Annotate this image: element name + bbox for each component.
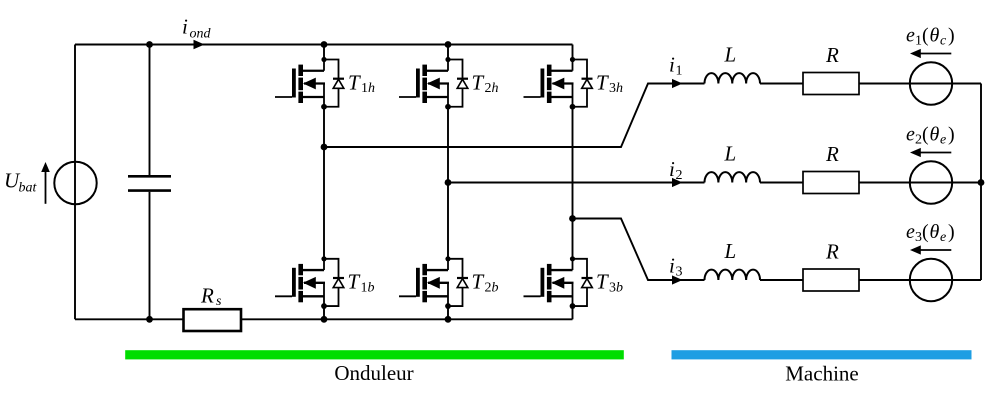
current arrow i2 (672, 178, 683, 187)
svg-text:2b: 2b (485, 280, 499, 295)
resistor R phase 1 (803, 73, 859, 95)
wire: leg 1 bottom lead (323, 306, 325, 319)
wire: phase 2 tap rail (448, 182, 705, 184)
wire: leg 1 top lead (323, 45, 325, 60)
wire: phase 2 R to right bus (859, 182, 981, 184)
svg-text:e: e (906, 221, 915, 243)
svg-text:bat: bat (19, 181, 38, 196)
junction dot bottom rail / leg2 (445, 316, 452, 323)
voltage source U_bat circle (54, 162, 96, 204)
svg-text:1b: 1b (361, 280, 375, 295)
svg-text:): ) (948, 124, 955, 146)
resistor R phase 3 (803, 269, 859, 291)
svg-text:2h: 2h (485, 81, 499, 96)
resistor Rs (184, 309, 242, 331)
junction dot top rail / capacitor (146, 41, 153, 48)
current arrow i3 (672, 275, 683, 284)
svg-text:): ) (948, 25, 955, 47)
wire: leg 3 mid vertical (572, 107, 574, 259)
svg-text:i: i (669, 254, 675, 278)
svg-text:3: 3 (676, 265, 683, 280)
svg-text:3h: 3h (609, 81, 623, 96)
svg-text:e: e (906, 124, 915, 146)
svg-text:s: s (216, 294, 222, 309)
capacitor C plates (128, 176, 171, 190)
source e1 circle (910, 62, 952, 104)
source e2 circle (910, 161, 952, 203)
svg-text:3: 3 (915, 230, 922, 245)
svg-text:1: 1 (676, 64, 683, 79)
svg-text:T: T (348, 70, 361, 94)
svg-text:3b: 3b (609, 280, 623, 295)
svg-text:Machine: Machine (785, 362, 858, 386)
wire: right vertical bus (980, 84, 982, 281)
wire: phase 3 between coil and R (760, 279, 803, 281)
arrow above e3 (910, 245, 951, 254)
wire: phase 1 source to right bus (910, 83, 981, 85)
wire: phase 1 between coil and R (760, 83, 803, 85)
svg-text:L: L (724, 142, 737, 166)
svg-text:2: 2 (676, 168, 683, 183)
wire: top rail (75, 44, 573, 46)
transistor T1h (NMOS + body diode) (275, 57, 344, 110)
wire: phase 3 R to right bus (859, 279, 981, 281)
junction dot phase 1 tap (321, 144, 328, 151)
svg-text:θ: θ (930, 221, 940, 243)
source e3 circle (910, 259, 952, 301)
wire: capacitor branch lower (149, 192, 151, 319)
wire: leg 2 mid vertical (447, 107, 449, 259)
wire: bottom rail left of Rs (75, 318, 183, 320)
svg-text:1h: 1h (361, 81, 375, 96)
blue underline bar (Machine) (672, 350, 972, 359)
inductor L phase 2 (705, 172, 761, 182)
svg-text:e: e (940, 133, 946, 148)
svg-text:R: R (825, 240, 839, 264)
svg-text:e: e (906, 25, 915, 47)
svg-text:L: L (724, 239, 737, 263)
svg-text:(: ( (922, 221, 929, 243)
svg-text:ond: ond (190, 27, 212, 42)
svg-text:θ: θ (930, 25, 940, 47)
transistor T2h (NMOS + body diode) (399, 57, 468, 110)
junction dot top rail / leg2 (445, 41, 452, 48)
svg-text:L: L (724, 43, 737, 67)
junction dot right bus / phase 2 (978, 179, 985, 186)
svg-text:T: T (596, 270, 609, 294)
wire: left vertical (battery branch) (74, 45, 76, 320)
svg-text:R: R (200, 284, 214, 308)
svg-text:e: e (940, 230, 946, 245)
wire: leg 1 mid vertical (323, 107, 325, 259)
svg-text:T: T (348, 270, 361, 294)
arrow above e1 (910, 49, 951, 58)
svg-text:R: R (825, 142, 839, 166)
transistor T3h (NMOS + body diode) (524, 57, 593, 110)
transistor T1b (NMOS + body diode) (275, 256, 344, 309)
transistor T2b (NMOS + body diode) (399, 256, 468, 309)
svg-text:c: c (940, 34, 947, 49)
junction dot phase 2 tap (445, 179, 452, 186)
junction dot bottom rail / capacitor (146, 316, 153, 323)
U_bat polarity arrow (41, 162, 50, 204)
wire: leg 2 bottom lead (447, 306, 449, 319)
svg-text:R: R (825, 43, 839, 67)
svg-text:T: T (472, 270, 485, 294)
junction dot top rail / leg1 (321, 41, 328, 48)
svg-text:i: i (669, 157, 675, 181)
svg-text:i: i (669, 53, 675, 77)
junction dot bottom rail / leg1 (321, 316, 328, 323)
transistor T3b (NMOS + body diode) (524, 256, 593, 309)
inductor L phase 3 (705, 270, 761, 280)
arrow above e2 (910, 148, 951, 157)
wire: phase 1 tap rail and diagonal (324, 84, 705, 148)
svg-text:): ) (948, 221, 955, 243)
wire: phase 3 tap rail and diagonal (573, 219, 705, 281)
svg-text:T: T (596, 70, 609, 94)
current arrow i_ond (194, 40, 205, 50)
wire: phase 2 between coil and R (760, 182, 803, 184)
svg-text:θ: θ (930, 124, 940, 146)
current arrow i1 (672, 79, 683, 88)
wire: leg 2 top lead (447, 45, 449, 60)
svg-text:2: 2 (915, 133, 922, 148)
svg-text:Onduleur: Onduleur (334, 361, 413, 385)
svg-text:T: T (472, 70, 485, 94)
junction dot phase 3 tap (569, 215, 576, 222)
resistor R phase 2 (803, 172, 859, 194)
wire: leg 3 top lead (572, 45, 574, 60)
wire: leg 3 bottom lead (572, 306, 574, 319)
svg-text:(: ( (922, 25, 929, 47)
wire: phase 1 between R and source e1 (859, 83, 952, 85)
wire: bottom rail right of Rs (242, 318, 573, 320)
svg-text:(: ( (922, 124, 929, 146)
svg-text:1: 1 (915, 34, 922, 49)
inductor L phase 1 (705, 73, 761, 83)
svg-text:i: i (182, 15, 188, 39)
green underline bar (Onduleur) (125, 350, 624, 359)
wire: capacitor branch upper (149, 45, 151, 176)
